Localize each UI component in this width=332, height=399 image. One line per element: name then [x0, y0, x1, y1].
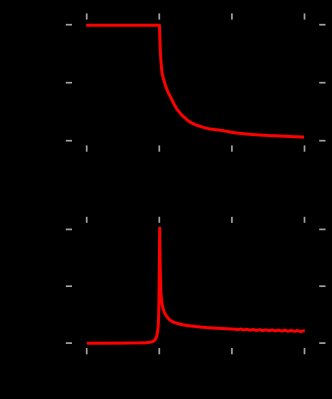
top plot x-axis ticks, top edge — [87, 13, 305, 19]
bottom plot y-axis ticks, right edge — [319, 229, 325, 343]
bottom plot x-axis ticks, bottom edge — [87, 348, 305, 354]
bottom plot x-axis ticks, top edge — [87, 217, 305, 223]
top plot y-axis ticks, right edge — [319, 25, 325, 141]
top plot y-axis ticks, left edge — [66, 25, 72, 141]
top plot x-axis ticks, bottom edge — [87, 145, 305, 151]
bottom plot red curve: flat baseline, sharp spike, settling tail with ripple — [87, 228, 305, 343]
top plot red curve: constant level then 1/t-like decay — [86, 25, 304, 137]
bottom plot y-axis ticks, left edge — [66, 229, 72, 343]
